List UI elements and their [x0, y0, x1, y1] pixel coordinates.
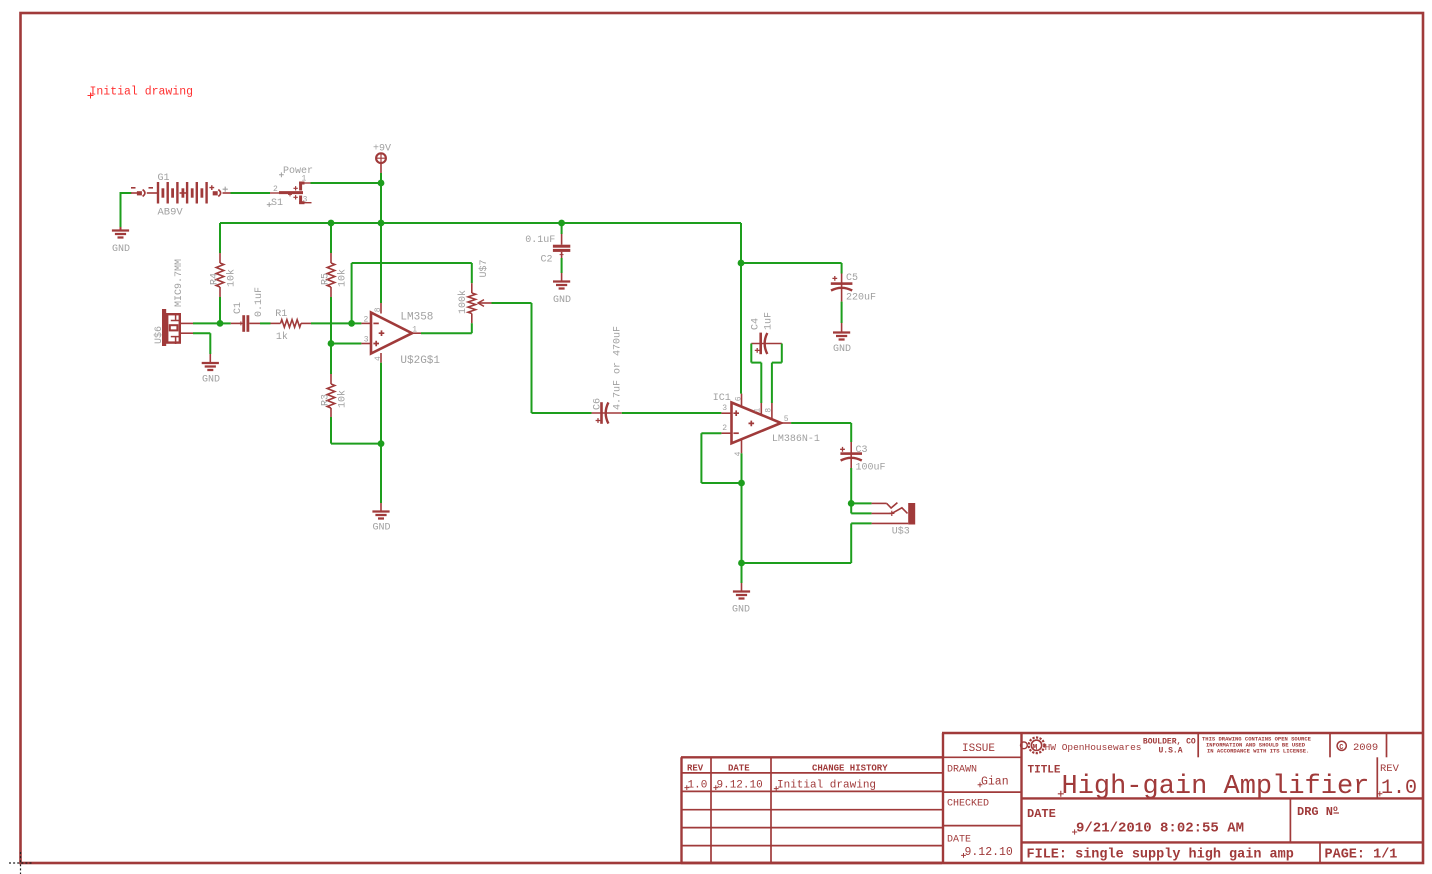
svg-text:1.0: 1.0: [688, 780, 708, 792]
capacitor C6 4.7uF or 470uF: [592, 412, 622, 414]
wire LM358 pin4 to gnd: [380, 363, 382, 503]
svg-text:100k: 100k: [457, 290, 469, 314]
svg-text:IC1: IC1: [713, 393, 731, 404]
wire pin3: [331, 343, 361, 345]
svg-text:3: 3: [303, 196, 308, 205]
ground GND (mic): [209, 354, 211, 363]
svg-text:R4: R4: [210, 273, 221, 285]
junction R5/pin3: [328, 340, 335, 347]
svg-text:1: 1: [412, 325, 417, 334]
svg-text:9.12.10: 9.12.10: [965, 846, 1013, 859]
resistor R1 1k: [271, 322, 281, 324]
title block: title row: [1022, 797, 1424, 799]
svg-text:TITLE: TITLE: [1028, 765, 1061, 777]
junction pin4/R3 gnd net: [378, 440, 385, 447]
title block: file row: [1319, 842, 1321, 863]
junction rail/R5: [328, 220, 335, 227]
svg-text:10k: 10k: [337, 390, 349, 408]
resistor R5 10k: [330, 253, 332, 263]
svg-text:R1: R1: [275, 309, 287, 320]
ground GND (LM386): [741, 563, 743, 583]
wire rail to R5: [330, 223, 332, 253]
wire LM386 pin2 feedback to gnd net: [701, 432, 721, 434]
capacitor C5 220uF: [841, 274, 843, 302]
wire rail to R4: [219, 223, 221, 253]
svg-text:High-gain Amplifier: High-gain Amplifier: [1062, 772, 1370, 802]
note: Initial drawing (red): [88, 93, 94, 99]
wire to jack ring: [850, 503, 852, 513]
svg-text:REV: REV: [1380, 763, 1400, 775]
capacitor C4 1uF (bypass pins 1-8): [751, 343, 782, 345]
junction gnd net: [738, 560, 745, 567]
svg-text:Power: Power: [283, 166, 313, 177]
svg-text:2009: 2009: [1353, 742, 1378, 754]
svg-text:Initial drawing: Initial drawing: [90, 86, 194, 99]
title block: logo row: [1197, 733, 1199, 757]
svg-text:Initial drawing: Initial drawing: [777, 780, 876, 792]
svg-text:DRG N: DRG N: [1297, 805, 1333, 819]
svg-text:1: 1: [754, 408, 763, 413]
junction pin2/pin4: [738, 480, 745, 487]
svg-text:GND: GND: [833, 344, 851, 355]
wire battery+ to switch: [231, 192, 271, 194]
svg-text:MIC9.7MM: MIC9.7MM: [174, 259, 185, 307]
title block: issue column: [942, 732, 1423, 734]
junction rail corner to C5/pin6: [738, 260, 745, 267]
svg-text:U$6: U$6: [153, 326, 165, 344]
svg-text:+9V: +9V: [373, 144, 391, 155]
wire R1 to pin2 node: [311, 322, 352, 324]
svg-text:9/21/2010 8:02:55 AM: 9/21/2010 8:02:55 AM: [1076, 821, 1244, 837]
svg-text:DRAWN: DRAWN: [947, 765, 977, 776]
capacitor C1 0.1uF: [231, 322, 243, 324]
svg-text:ISSUE: ISSUE: [962, 743, 995, 755]
wire C6 to LM386 pin3: [622, 412, 722, 414]
svg-text:U$3: U$3: [892, 526, 910, 538]
svg-text:C1: C1: [233, 302, 244, 314]
svg-text:4.7uF or 470uF: 4.7uF or 470uF: [613, 326, 624, 410]
wire +9V down: [380, 173, 382, 223]
battery G1 AB9V: [131, 192, 138, 194]
svg-text:C6: C6: [593, 398, 604, 410]
svg-text:GND: GND: [373, 523, 391, 534]
svg-text:1: 1: [302, 175, 307, 184]
wire R3 to gnd net: [330, 417, 332, 444]
svg-text:DATE: DATE: [947, 835, 971, 846]
svg-text:R3: R3: [321, 394, 332, 406]
wire +9V rail: [220, 222, 741, 224]
svg-text:C5: C5: [846, 273, 858, 284]
svg-text:10k: 10k: [337, 269, 349, 287]
copyright 2009: [1337, 741, 1346, 750]
svg-text:DATE: DATE: [1027, 807, 1056, 821]
wire rail to C5: [741, 262, 842, 264]
svg-text:1.0: 1.0: [1381, 777, 1417, 800]
jack U$3: [872, 502, 887, 504]
wire rail to C2: [561, 223, 563, 234]
wire R4 to mic node: [219, 297, 221, 324]
wire C5 to gnd: [841, 302, 843, 323]
svg-text:2: 2: [273, 185, 278, 194]
wire LM358 pin8 from +9V rail: [380, 223, 382, 303]
svg-text:C2: C2: [541, 255, 553, 266]
title block: change history table: [681, 756, 942, 758]
svg-text:GND: GND: [732, 605, 750, 616]
resistor R4 10k: [219, 253, 221, 263]
svg-text:Gian: Gian: [981, 776, 1009, 789]
svg-text:S1: S1: [271, 198, 283, 209]
svg-text:CHECKED: CHECKED: [947, 799, 989, 810]
svg-text:C3: C3: [856, 445, 868, 456]
junction mic/R4/C1: [217, 320, 224, 327]
wire pin2: [352, 322, 362, 324]
svg-text:C4: C4: [751, 318, 762, 330]
svg-text:FILE: single supply high gain: FILE: single supply high gain amp: [1027, 848, 1294, 863]
wire gnd net to jack sleeve: [742, 562, 852, 564]
svg-text:U$7: U$7: [478, 259, 490, 277]
svg-text:G1: G1: [158, 173, 170, 184]
svg-text:8: 8: [374, 307, 383, 312]
svg-text:0.1uF: 0.1uF: [525, 235, 555, 246]
svg-text:8: 8: [764, 408, 773, 413]
power amp IC1 LM386N-1: [732, 403, 782, 444]
svg-text:2: 2: [364, 315, 369, 324]
capacitor C3 100uF: [850, 442, 852, 470]
wire U$7 wiper to C6: [492, 302, 532, 304]
switch S1 (Power): [270, 192, 280, 194]
svg-text:100uF: 100uF: [856, 463, 886, 474]
wire node to C1: [220, 322, 231, 324]
wire +9V to LM386 pin6: [740, 263, 742, 394]
wire feedback up and to pot U$7 top: [351, 263, 353, 323]
svg-text:GND: GND: [112, 244, 130, 255]
wire mic gnd: [193, 332, 210, 334]
wire mic out to node: [193, 322, 220, 324]
wire C4 loop to pins 1 and 8: [750, 344, 752, 363]
wire LM386 pin4 down: [741, 453, 743, 563]
wire jack sleeve: [851, 522, 871, 524]
trimpot U$7 100k: [471, 283, 473, 293]
origin cross marker: [9, 862, 32, 864]
svg-text:R5: R5: [321, 273, 332, 285]
ground GND (op-amp): [380, 503, 382, 512]
svg-text:DATE: DATE: [728, 763, 750, 773]
wire R5 to pin3 node: [330, 297, 332, 344]
svg-text:REV: REV: [687, 763, 704, 773]
wire to jack tip: [851, 502, 871, 504]
supply symbol +9V: [376, 153, 386, 163]
svg-text:5: 5: [784, 415, 789, 424]
junction R1/pin2/feedback: [348, 320, 355, 327]
wire U$7 bottom to op-amp output: [471, 323, 473, 333]
svg-text:HW OpenHousewares: HW OpenHousewares: [1045, 742, 1142, 753]
svg-text:PAGE: 1/1: PAGE: 1/1: [1325, 848, 1398, 863]
junction rail/C2: [558, 220, 565, 227]
wire C1 to R1: [260, 322, 271, 324]
svg-text:LM358: LM358: [400, 312, 433, 324]
svg-text:0.1uF: 0.1uF: [254, 287, 265, 317]
capacitor C2 0.1uF: [561, 234, 563, 245]
svg-text:GND: GND: [202, 375, 220, 386]
svg-text:3: 3: [722, 404, 727, 413]
svg-text:IN ACCORDANCE WITH ITS LICENSE: IN ACCORDANCE WITH ITS LICENSE.: [1207, 748, 1309, 755]
svg-text:4: 4: [374, 356, 383, 361]
svg-text:CHANGE HISTORY: CHANGE HISTORY: [812, 763, 888, 773]
battery G1 wires to ground: [121, 192, 132, 194]
resistor R3 10k: [330, 374, 332, 384]
wire switch pin1 to +9V net: [311, 182, 382, 184]
svg-text:6: 6: [735, 396, 744, 401]
svg-text:C: C: [1339, 744, 1343, 752]
ground GND (C5): [841, 323, 843, 333]
junction +9V/switch: [378, 180, 385, 187]
svg-text:M: M: [1033, 743, 1038, 752]
ground GND (battery): [120, 227, 122, 231]
junction rail/+9V: [378, 220, 385, 227]
svg-text:2: 2: [722, 424, 727, 433]
wire LM386 pin5 to C3: [791, 422, 851, 424]
svg-text:220uF: 220uF: [846, 293, 876, 304]
svg-text:BOULDER, CO: BOULDER, CO: [1143, 738, 1196, 747]
logo OpenHousewares: [1029, 738, 1045, 754]
wire pin3 node down to R3: [330, 344, 332, 375]
svg-text:9.12.10: 9.12.10: [717, 780, 763, 792]
change table row 1: [684, 785, 689, 790]
svg-text:LM386N-1: LM386N-1: [772, 434, 820, 445]
svg-text:10k: 10k: [226, 269, 238, 287]
svg-text:U.S.A: U.S.A: [1159, 746, 1183, 755]
microphone U$6 MIC9.7MM: [162, 309, 166, 346]
title block: date row: [1022, 841, 1424, 843]
svg-text:GND: GND: [553, 295, 571, 306]
svg-text:1k: 1k: [276, 331, 288, 343]
wire C2 to gnd: [561, 258, 563, 273]
wire C3 to jack: [850, 468, 852, 503]
junction jack tip/ring: [848, 500, 855, 507]
svg-text:AB9V: AB9V: [158, 207, 184, 219]
ground GND (C2): [561, 273, 563, 282]
svg-text:U$2G$1: U$2G$1: [400, 355, 440, 367]
svg-text:1uF: 1uF: [764, 312, 775, 330]
op-amp U$2G$1 LM358: [371, 313, 412, 354]
svg-text:3: 3: [364, 336, 369, 345]
